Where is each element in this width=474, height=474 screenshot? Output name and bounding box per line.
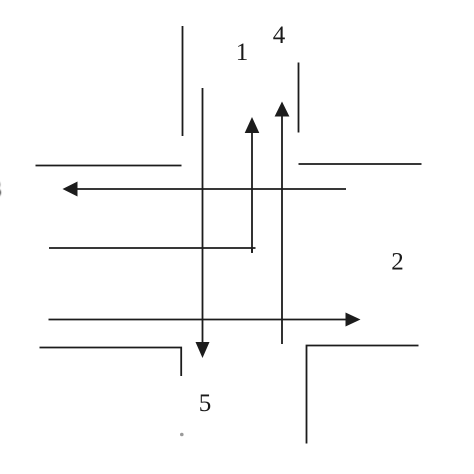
stray dot artifact: [180, 433, 184, 437]
svg-text:1: 1: [236, 39, 249, 66]
wire right road top edge: [299, 163, 422, 165]
svg-text:2: 2: [391, 249, 404, 276]
wire bottom-right road corner: [307, 346, 419, 444]
wire up arrow 1 shaft overshoot: [251, 248, 253, 253]
wire top road left edge: [182, 26, 184, 136]
svg-text:3: 3: [0, 176, 2, 203]
arrow up 1 (movement 1): [245, 117, 260, 253]
arrow down (movement 5): [196, 88, 210, 358]
arrow up 2 (movement 4): [275, 102, 290, 345]
svg-text:4: 4: [273, 22, 286, 49]
wire left road top edge: [36, 165, 182, 167]
wire top road right edge: [298, 63, 300, 133]
svg-text:5: 5: [199, 390, 212, 417]
arrow left (movement 3): [63, 182, 347, 197]
arrow right (movement 2): [49, 313, 361, 327]
wire feed line to up arrow 1: [49, 247, 256, 249]
wire bottom-left road corner: [40, 348, 182, 377]
